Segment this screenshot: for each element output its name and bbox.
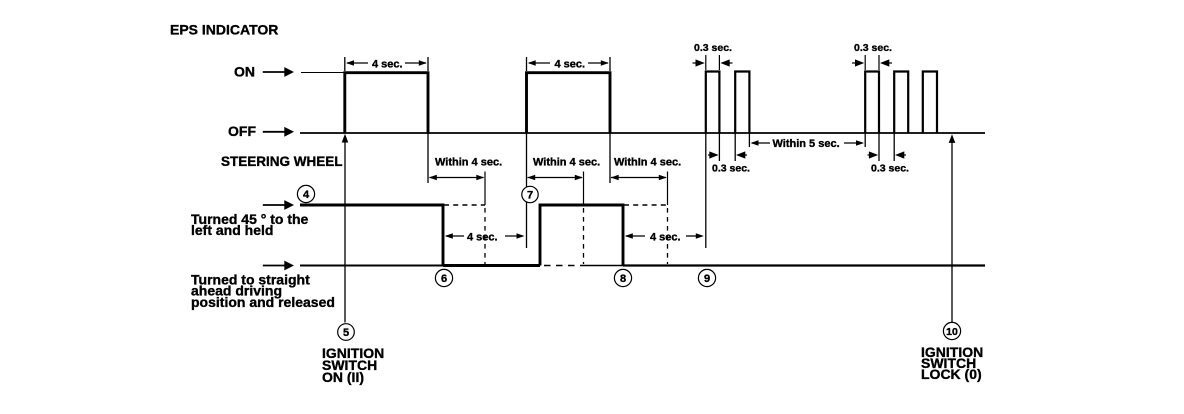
node circle 5 (338, 324, 355, 341)
extension line below narrow pulse4 rise (734, 133, 736, 161)
dimension 0.3 sec top group 2 (852, 42, 892, 70)
svg-text:OFF: OFF (228, 123, 256, 139)
extension line below narrow pulse6 rise (893, 133, 895, 161)
svg-text:4 sec.: 4 sec. (555, 58, 586, 70)
steering wheel trace held segment 2 (540, 205, 623, 266)
dashed vertical at 667.5 (667, 172, 669, 206)
node circle 7 (522, 186, 538, 202)
dimension 0.3 sec bottom group 2 (868, 151, 910, 174)
dashed hold level after fall 1 (444, 204, 485, 206)
svg-text:ON (II): ON (II) (322, 369, 364, 385)
svg-text:ON: ON (234, 64, 255, 80)
node circle 8 (614, 269, 631, 286)
svg-text:0.3 sec.: 0.3 sec. (694, 42, 732, 54)
svg-text:4 sec.: 4 sec. (650, 231, 681, 243)
svg-text:EPS INDICATOR: EPS INDICATOR (170, 22, 278, 38)
dimension 0.3 sec bottom group 1 (708, 151, 750, 174)
extension line below narrow pulse3 fall (718, 133, 720, 161)
arrow to ON line (263, 71, 285, 73)
steering baseline segment left (300, 265, 443, 267)
svg-text:9: 9 (704, 273, 710, 285)
EPS narrow pulse 3 (0.3 sec) (706, 72, 720, 134)
EPS narrow pulse 4 (735, 72, 749, 134)
svg-text:position and released: position and released (191, 294, 335, 310)
svg-text:4: 4 (303, 189, 310, 201)
dimension 4 sec mid no.2 (625, 231, 704, 243)
extension line below EPS pulse1 fall (427, 133, 429, 183)
EPS pulse 2 (4 sec) (527, 73, 611, 133)
svg-text:Within 5 sec.: Within 5 sec. (773, 138, 840, 150)
node circle 10 (943, 322, 960, 339)
svg-text:4 sec.: 4 sec. (372, 58, 403, 70)
steering baseline thin segment (581, 265, 623, 267)
dashed hold level after fall 2 (624, 204, 668, 206)
svg-text:4 sec.: 4 sec. (467, 231, 498, 243)
svg-text:7: 7 (527, 190, 533, 202)
arrow to OFF line (263, 131, 285, 133)
steering baseline dashed under pulse 2 (544, 265, 581, 267)
EPS narrow pulse 5 (865, 72, 879, 134)
svg-text:Within 4 sec.: Within 4 sec. (435, 157, 502, 169)
node circle 4 (297, 185, 314, 202)
ignition lock vertical arrow (951, 140, 953, 322)
svg-text:0.3 sec.: 0.3 sec. (712, 163, 750, 175)
dimension Within 4 sec no.3 (611, 157, 681, 181)
extension line below narrow pulse4 fall (748, 133, 750, 147)
dimension 0.3 sec top group 1 (693, 42, 733, 70)
dimension 4 sec mid no.1 (445, 231, 525, 243)
dashed vertical at 485 (484, 172, 486, 206)
dimension 4 sec pulse 2 (527, 57, 611, 71)
node circle 6 (435, 269, 452, 286)
EPS narrow pulse 6 (894, 72, 908, 134)
steering baseline active segment (443, 264, 540, 267)
dashed vertical at 583.5 (583, 172, 585, 206)
extension line below narrow pulse5 fall (878, 133, 880, 161)
wire ON lead-in (301, 72, 344, 74)
ignition on vertical arrow (344, 140, 346, 323)
svg-text:LOCK (0): LOCK (0) (921, 366, 982, 382)
svg-text:5: 5 (343, 327, 349, 339)
dimension Within 4 sec no.2 (527, 157, 600, 181)
extension line below narrow pulse3 rise (705, 133, 707, 248)
svg-text:WithIn 4 sec.: WithIn 4 sec. (614, 157, 681, 169)
dimension 4 sec pulse 1 (345, 57, 428, 71)
svg-text:STEERING WHEEL: STEERING WHEEL (221, 154, 343, 169)
arrow to steering held line (263, 204, 285, 206)
extension line below narrow pulse5 rise (864, 133, 866, 147)
svg-text:0.3 sec.: 0.3 sec. (854, 42, 892, 54)
svg-text:6: 6 (441, 273, 447, 285)
EPS narrow pulse 7 (923, 72, 937, 134)
arrow to steering straight line (263, 265, 285, 267)
svg-text:8: 8 (620, 273, 626, 285)
dimension Within 4 sec no.1 (429, 157, 502, 181)
node circle 9 (698, 269, 715, 286)
svg-text:0.3 sec.: 0.3 sec. (871, 163, 909, 175)
wire OFF baseline (300, 132, 985, 134)
svg-text:10: 10 (946, 326, 958, 338)
extension line below EPS pulse2 rise (526, 133, 528, 248)
svg-text:Within 4 sec.: Within 4 sec. (533, 157, 600, 169)
steering wheel trace held segment 1 (300, 205, 443, 266)
extension line below EPS pulse2 fall (609, 133, 611, 183)
dimension Within 5 sec (751, 138, 865, 150)
EPS pulse 1 (4 sec) (345, 73, 428, 133)
steering baseline segment right (623, 264, 985, 266)
svg-text:left and held: left and held (191, 222, 273, 238)
